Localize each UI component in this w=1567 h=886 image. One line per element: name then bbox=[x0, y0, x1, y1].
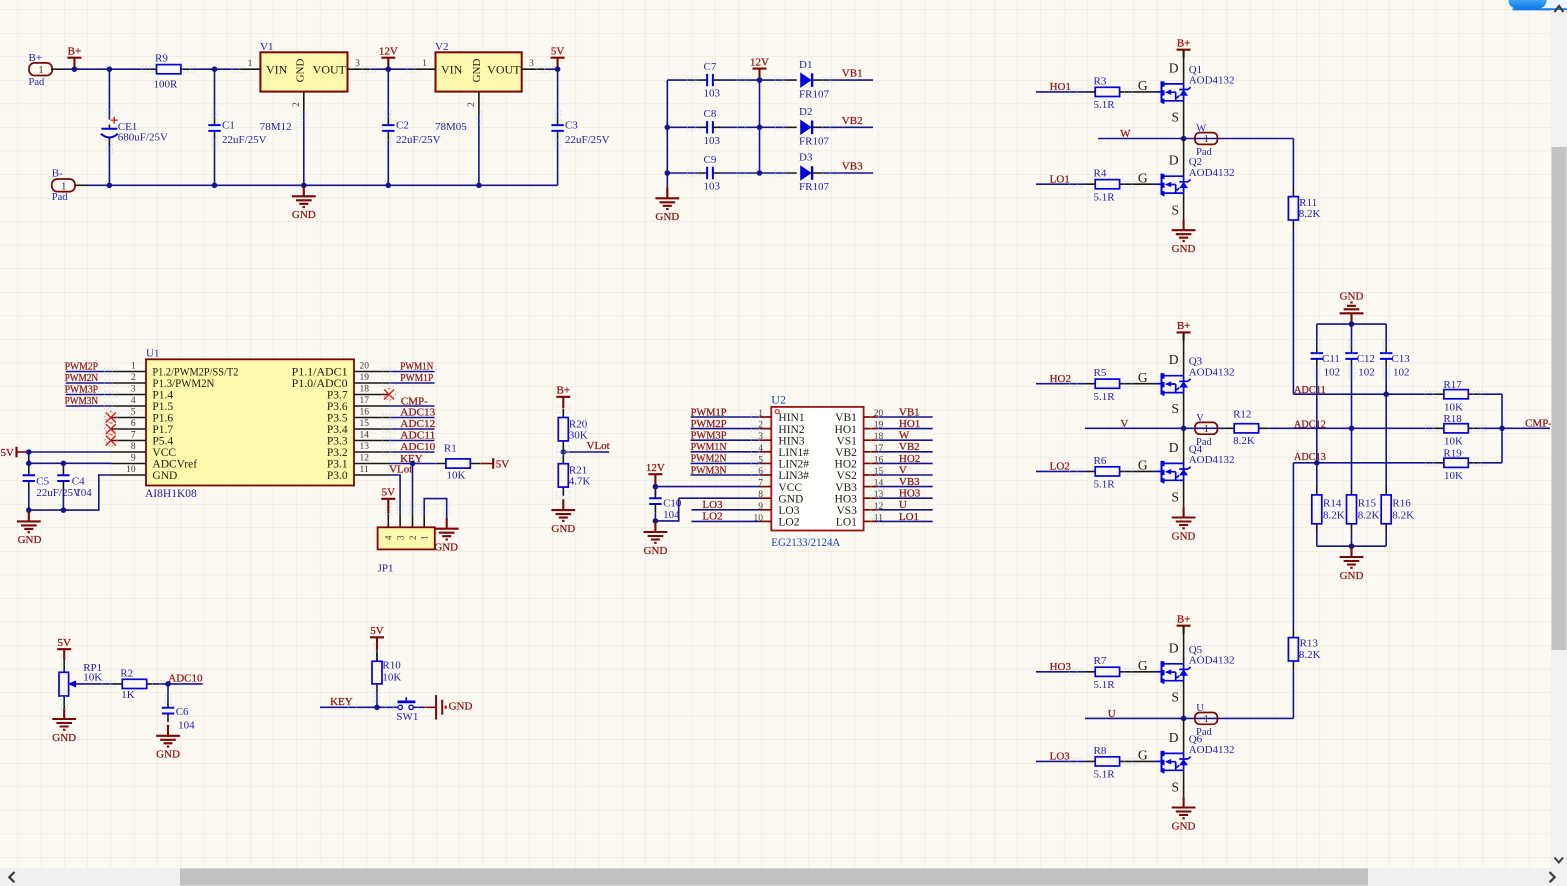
resistor R7 bbox=[1085, 667, 1129, 676]
diode D1 bbox=[787, 73, 825, 87]
svg-text:S: S bbox=[1171, 780, 1179, 795]
pin 1 U2 bbox=[760, 416, 771, 418]
resistor R16 bbox=[1381, 486, 1391, 532]
svg-text:VIN: VIN bbox=[441, 63, 463, 77]
capacitor C7 bbox=[699, 74, 722, 86]
svg-text:VCC: VCC bbox=[152, 447, 176, 459]
wire PWM1N U2 bbox=[691, 451, 760, 453]
pad U bbox=[1195, 713, 1217, 726]
pin 4 U2 bbox=[760, 451, 771, 453]
wire Q5 source bbox=[1183, 681, 1185, 719]
wire Q6 source bbox=[1183, 770, 1185, 796]
junction dot bbox=[555, 66, 561, 72]
resistor R19 bbox=[1434, 458, 1478, 467]
svg-text:12: 12 bbox=[360, 453, 370, 463]
wire HO3 bbox=[1036, 671, 1085, 673]
capacitor C12 bbox=[1345, 345, 1357, 368]
junction dot bbox=[26, 461, 32, 467]
junction dot bbox=[72, 66, 78, 72]
svg-text:12V: 12V bbox=[379, 46, 398, 58]
svg-text:VCC: VCC bbox=[778, 482, 802, 494]
svg-text:4.7K: 4.7K bbox=[569, 476, 591, 488]
pin 4 U1 bbox=[111, 405, 146, 407]
svg-text:ADC11: ADC11 bbox=[400, 429, 435, 441]
svg-text:AOD4132: AOD4132 bbox=[1189, 655, 1235, 667]
wire PWM1N bbox=[389, 371, 435, 373]
wire V1 out bbox=[371, 68, 413, 70]
svg-text:R8: R8 bbox=[1094, 745, 1107, 757]
junction dot bbox=[212, 66, 218, 72]
power port 12V bootstrap bbox=[750, 56, 769, 80]
svg-text:VS2: VS2 bbox=[836, 470, 857, 482]
svg-text:VB1: VB1 bbox=[899, 406, 920, 418]
wire B+ rail left bbox=[64, 68, 147, 70]
pin 3 V1 bbox=[348, 68, 371, 70]
svg-text:D: D bbox=[1169, 730, 1179, 745]
horizontal scrollbar right arrow bbox=[1550, 872, 1555, 882]
svg-text:5: 5 bbox=[131, 407, 136, 417]
pin 7 U1 bbox=[111, 440, 146, 442]
wire SW1 right bbox=[413, 706, 424, 708]
svg-text:G: G bbox=[1138, 171, 1148, 186]
resistor R15 bbox=[1347, 486, 1357, 532]
svg-text:16: 16 bbox=[360, 407, 370, 417]
svg-text:15: 15 bbox=[360, 419, 370, 429]
svg-text:U: U bbox=[899, 499, 907, 511]
wire CMP- column bbox=[1501, 394, 1503, 463]
resistor R13 bbox=[1288, 629, 1298, 670]
wire to C7 bbox=[667, 79, 698, 81]
power port B+ Q5 bbox=[1177, 614, 1191, 634]
wire Q6 drain bbox=[1183, 718, 1185, 753]
pin 9 U2 bbox=[760, 509, 771, 511]
svg-text:HO1: HO1 bbox=[835, 424, 858, 436]
wire R18 out bbox=[1478, 427, 1502, 429]
wire C2 bottom bbox=[387, 139, 389, 185]
svg-text:R6: R6 bbox=[1094, 455, 1107, 467]
wire U U2 bbox=[877, 509, 933, 511]
wire W U2 bbox=[877, 439, 933, 441]
wire PWM3N U2 bbox=[691, 474, 760, 476]
svg-text:ADC11: ADC11 bbox=[1294, 384, 1326, 396]
svg-text:C6: C6 bbox=[176, 706, 189, 718]
svg-text:FR107: FR107 bbox=[799, 88, 829, 100]
junction dot bbox=[1181, 426, 1187, 432]
svg-text:S: S bbox=[1171, 109, 1179, 124]
svg-text:JP1: JP1 bbox=[378, 562, 394, 574]
pin 5 U2 bbox=[760, 462, 771, 464]
svg-text:HIN1: HIN1 bbox=[778, 412, 804, 424]
svg-text:14: 14 bbox=[360, 430, 370, 440]
svg-text:PWM3N: PWM3N bbox=[65, 395, 99, 407]
tab underline bbox=[1513, 8, 1567, 10]
pin 3 JP1 bbox=[399, 513, 401, 527]
pin 18 U2 bbox=[864, 439, 877, 441]
wire HO2 U2 bbox=[877, 462, 933, 464]
wire Q3 source bbox=[1183, 393, 1185, 429]
junction dot bbox=[1383, 391, 1389, 397]
pin 13 U2 bbox=[864, 497, 877, 499]
junction dot bbox=[1349, 543, 1355, 549]
wire ADC13 bbox=[389, 417, 435, 419]
potentiometer RP1 bbox=[59, 672, 76, 696]
svg-text:P3.5: P3.5 bbox=[327, 413, 348, 425]
svg-text:VB2: VB2 bbox=[835, 447, 857, 459]
wire ADC13 to R13 bbox=[1292, 463, 1294, 629]
wire PWM2P bbox=[66, 371, 111, 373]
pin RP1 bottom bbox=[63, 696, 65, 708]
svg-text:5V: 5V bbox=[382, 487, 396, 499]
pin 15 U1 bbox=[354, 428, 389, 430]
wire R5 to gate bbox=[1129, 383, 1154, 385]
power port 12V bbox=[379, 46, 398, 70]
svg-text:CMP-: CMP- bbox=[1525, 418, 1552, 430]
wire KEY bbox=[389, 463, 436, 465]
svg-text:P1.1/ADC1: P1.1/ADC1 bbox=[292, 367, 348, 379]
svg-text:P1.7: P1.7 bbox=[152, 424, 173, 436]
pin 2 V2 bbox=[478, 92, 480, 115]
wire CE1 top bbox=[108, 69, 110, 119]
svg-text:GND: GND bbox=[434, 542, 458, 554]
svg-text:1: 1 bbox=[131, 361, 136, 371]
pin B- pad bbox=[75, 184, 88, 186]
wire VB3 U2 bbox=[877, 486, 933, 488]
svg-text:VB3: VB3 bbox=[899, 476, 920, 488]
svg-text:HIN2: HIN2 bbox=[778, 424, 804, 436]
svg-text:PWM1P: PWM1P bbox=[691, 406, 727, 418]
ground under V1 bbox=[292, 186, 316, 222]
svg-text:5.1R: 5.1R bbox=[1094, 191, 1116, 203]
horizontal scrollbar thumb bbox=[180, 869, 1368, 886]
wire CE1 bottom bbox=[108, 144, 110, 185]
svg-text:5V: 5V bbox=[496, 459, 510, 471]
wire HO3 U2 bbox=[877, 497, 933, 499]
power port 5V bbox=[551, 46, 565, 70]
svg-text:U: U bbox=[1196, 703, 1204, 714]
svg-text:VIN: VIN bbox=[266, 63, 288, 77]
pad B- bbox=[52, 179, 75, 192]
svg-text:P3.0: P3.0 bbox=[327, 470, 348, 482]
svg-text:G: G bbox=[1138, 370, 1148, 385]
pin 2 JP1 bbox=[412, 513, 414, 527]
svg-text:10K: 10K bbox=[382, 671, 401, 683]
junction dot bbox=[386, 183, 392, 189]
svg-text:W: W bbox=[1120, 128, 1131, 140]
svg-text:B+: B+ bbox=[1177, 614, 1191, 626]
svg-text:GND: GND bbox=[551, 523, 575, 535]
pin 19 U2 bbox=[864, 428, 877, 430]
svg-text:22uF/25V: 22uF/25V bbox=[396, 134, 441, 146]
wire LO2 bbox=[1036, 470, 1085, 472]
svg-text:3: 3 bbox=[131, 384, 136, 394]
svg-text:102: 102 bbox=[1393, 367, 1410, 379]
resistor R3 bbox=[1085, 87, 1129, 96]
wire ADC10 bbox=[389, 451, 435, 453]
svg-text:1: 1 bbox=[420, 536, 430, 541]
wire VLot stub bbox=[563, 451, 609, 453]
svg-text:ADCVref: ADCVref bbox=[152, 459, 197, 471]
svg-text:12V: 12V bbox=[750, 56, 769, 68]
wire PWM3P U2 bbox=[691, 439, 760, 441]
svg-text:C1: C1 bbox=[222, 119, 235, 131]
svg-text:B+: B+ bbox=[1177, 320, 1191, 332]
pin 4 JP1 bbox=[387, 513, 389, 527]
power port B+ divider bbox=[556, 385, 570, 409]
vertical scrollbar track bbox=[1551, 10, 1567, 886]
wire CMP- bbox=[1502, 427, 1550, 429]
svg-text:AOD4132: AOD4132 bbox=[1189, 454, 1235, 466]
svg-text:LO2: LO2 bbox=[778, 517, 799, 529]
svg-text:C12: C12 bbox=[1357, 353, 1375, 365]
pin 18 U1 bbox=[354, 394, 389, 396]
svg-text:P1.3/PWM2N: P1.3/PWM2N bbox=[152, 378, 215, 390]
wire V2 out bbox=[545, 68, 558, 70]
junction dot bbox=[107, 66, 113, 72]
svg-text:P1.2/PWM2P/SS/T2: P1.2/PWM2P/SS/T2 bbox=[152, 367, 238, 379]
wire HO2 bbox=[1036, 383, 1085, 385]
wire ADC11 bbox=[389, 440, 435, 442]
resistor R18 bbox=[1434, 424, 1478, 433]
svg-text:103: 103 bbox=[704, 135, 721, 147]
junction dot bbox=[1349, 321, 1355, 327]
svg-text:HO3: HO3 bbox=[899, 488, 921, 500]
wire 12V to VCC bbox=[655, 486, 760, 488]
svg-text:5V: 5V bbox=[1, 447, 15, 459]
svg-text:B+: B+ bbox=[68, 46, 82, 58]
svg-text:78M05: 78M05 bbox=[435, 121, 467, 133]
wire GND pin8 bbox=[679, 497, 760, 499]
capacitor C5 bbox=[23, 467, 35, 490]
wire R6 to gate bbox=[1129, 470, 1154, 472]
ground at C10 bbox=[643, 521, 667, 557]
svg-text:3: 3 bbox=[396, 535, 406, 540]
svg-text:VB3: VB3 bbox=[842, 161, 863, 173]
svg-text:R11: R11 bbox=[1299, 197, 1317, 209]
wire down to ADCVref rail bbox=[28, 452, 30, 463]
wire Q1 source bbox=[1183, 101, 1185, 139]
svg-text:AOD4132: AOD4132 bbox=[1189, 744, 1235, 756]
wire C13 to R16 bbox=[1385, 367, 1387, 486]
wire V U2 bbox=[877, 474, 933, 476]
pin 1 V2 bbox=[412, 68, 435, 70]
svg-text:12V: 12V bbox=[646, 462, 665, 474]
pin 3 U1 bbox=[111, 394, 146, 396]
svg-text:2: 2 bbox=[292, 102, 302, 107]
junction dot bbox=[1499, 426, 1505, 432]
svg-text:SW1: SW1 bbox=[396, 711, 418, 723]
svg-text:LIN2#: LIN2# bbox=[778, 459, 809, 471]
wire B+ to Q3 drain bbox=[1183, 332, 1185, 375]
wire cap top rail bbox=[1317, 323, 1386, 325]
pin 1 U1 bbox=[111, 371, 146, 373]
svg-text:104: 104 bbox=[75, 487, 92, 499]
wire to gnd bbox=[654, 520, 656, 522]
wire JP1 pin1 to gnd bbox=[424, 499, 447, 518]
wire C12 top bbox=[1351, 324, 1353, 345]
wire ADCVref bbox=[29, 462, 111, 464]
wire C5 bottom bbox=[28, 489, 30, 510]
pin 19 U1 bbox=[354, 382, 389, 384]
resistor R14 bbox=[1312, 486, 1322, 532]
pin 3 U2 bbox=[760, 439, 771, 441]
ground under R15 bbox=[1340, 546, 1364, 582]
capacitor C11 bbox=[1311, 345, 1323, 368]
capacitor C10 bbox=[649, 490, 661, 513]
svg-text:GND: GND bbox=[778, 493, 803, 505]
svg-text:5.1R: 5.1R bbox=[1094, 679, 1116, 691]
wire VB2 bbox=[824, 126, 873, 128]
svg-text:5.1R: 5.1R bbox=[1094, 391, 1116, 403]
svg-text:P3.3: P3.3 bbox=[327, 436, 348, 448]
pin 11 U2 bbox=[864, 520, 877, 522]
svg-text:P3.2: P3.2 bbox=[327, 447, 348, 459]
header JP1 bbox=[378, 527, 435, 549]
pad V bbox=[1195, 422, 1217, 435]
wire to C9 bbox=[667, 172, 698, 174]
ground C6 bbox=[156, 725, 180, 761]
power port 12V U2 bbox=[646, 462, 665, 487]
junction dot bbox=[665, 170, 671, 176]
wire LO3 U2 bbox=[691, 509, 760, 511]
svg-text:R20: R20 bbox=[569, 418, 588, 430]
svg-text:FR107: FR107 bbox=[799, 181, 829, 193]
svg-text:5.1R: 5.1R bbox=[1094, 479, 1116, 491]
svg-text:GND: GND bbox=[449, 700, 473, 712]
svg-text:22uF/25V: 22uF/25V bbox=[222, 134, 267, 146]
pin 10 U1 bbox=[111, 474, 146, 476]
wire LO1 bbox=[1036, 183, 1085, 185]
svg-text:8: 8 bbox=[131, 442, 136, 452]
svg-text:D2: D2 bbox=[799, 106, 812, 118]
wire HO1 bbox=[1036, 91, 1085, 93]
wire C10 top bbox=[654, 487, 656, 496]
pin 1 marker U2 bbox=[775, 410, 779, 414]
svg-text:PWM1N: PWM1N bbox=[691, 441, 727, 453]
pin 2 U2 bbox=[760, 428, 771, 430]
pin 14 U1 bbox=[354, 440, 389, 442]
pin 6 U1 bbox=[111, 428, 146, 430]
svg-text:8.2K: 8.2K bbox=[1299, 208, 1321, 220]
ground SW1 bbox=[436, 695, 472, 719]
svg-text:22uF/25V: 22uF/25V bbox=[565, 134, 610, 146]
svg-text:2: 2 bbox=[408, 536, 418, 541]
svg-text:LO1: LO1 bbox=[899, 511, 919, 523]
vertical scrollbar thumb bbox=[1552, 147, 1567, 650]
resistor R20 bbox=[558, 409, 568, 450]
svg-text:C9: C9 bbox=[704, 154, 717, 166]
svg-text:R5: R5 bbox=[1094, 367, 1107, 379]
wire C4 bottom bbox=[62, 489, 64, 510]
svg-text:19: 19 bbox=[360, 373, 370, 383]
ground RP1 bbox=[52, 708, 76, 744]
svg-text:GND: GND bbox=[292, 209, 316, 221]
svg-text:G: G bbox=[1138, 458, 1148, 473]
svg-text:5V: 5V bbox=[551, 46, 565, 58]
pin 17 U1 bbox=[354, 405, 389, 407]
junction dot bbox=[561, 449, 567, 455]
svg-text:1: 1 bbox=[61, 181, 66, 192]
svg-text:EG2133/2124A: EG2133/2124A bbox=[771, 535, 840, 549]
wire VB3 bbox=[824, 172, 873, 174]
svg-text:LIN1#: LIN1# bbox=[778, 447, 809, 459]
transistor Q3 bbox=[1155, 373, 1191, 396]
svg-text:GND: GND bbox=[655, 211, 679, 223]
pin 16 U2 bbox=[864, 462, 877, 464]
svg-text:HO1: HO1 bbox=[899, 418, 920, 430]
svg-text:GND: GND bbox=[52, 732, 76, 744]
pin 8 U2 bbox=[760, 497, 771, 499]
svg-text:680uF/25V: 680uF/25V bbox=[118, 131, 168, 143]
capacitor C6 bbox=[162, 699, 174, 722]
junction dot bbox=[757, 125, 763, 131]
svg-text:P1.6: P1.6 bbox=[152, 413, 173, 425]
resistor R10 bbox=[372, 653, 382, 693]
pin 9 U1 bbox=[111, 463, 146, 465]
svg-text:VS1: VS1 bbox=[836, 435, 857, 447]
svg-text:GND: GND bbox=[295, 59, 307, 83]
svg-text:VB1: VB1 bbox=[835, 412, 857, 424]
wire R3 to gate bbox=[1129, 91, 1154, 93]
junction dot bbox=[1349, 426, 1355, 432]
svg-text:R17: R17 bbox=[1443, 379, 1462, 391]
wire R13 to U bbox=[1292, 670, 1294, 719]
wire RP1 to R2 bbox=[76, 683, 113, 685]
wire to gnd port bbox=[424, 706, 435, 708]
svg-text:P3.1: P3.1 bbox=[327, 459, 348, 471]
junction dot bbox=[410, 461, 416, 467]
svg-text:5.1R: 5.1R bbox=[1094, 769, 1116, 781]
pin 2 V1 bbox=[303, 92, 305, 115]
svg-text:S: S bbox=[1171, 401, 1179, 416]
resistor R1 bbox=[436, 459, 480, 468]
svg-text:G: G bbox=[1138, 658, 1148, 673]
wire ADC12 bbox=[389, 428, 435, 430]
resistor R12 bbox=[1224, 424, 1268, 433]
svg-text:W: W bbox=[1196, 123, 1206, 134]
junction dot bbox=[107, 183, 113, 189]
svg-text:D: D bbox=[1169, 60, 1179, 75]
svg-text:8.2K: 8.2K bbox=[1323, 509, 1345, 521]
svg-text:S: S bbox=[1171, 490, 1179, 505]
svg-text:17: 17 bbox=[360, 396, 370, 406]
svg-text:AI8H1K08: AI8H1K08 bbox=[145, 488, 197, 500]
svg-text:V: V bbox=[1120, 418, 1128, 430]
wire VB2 U2 bbox=[877, 451, 933, 453]
wire VB1 U2 bbox=[877, 416, 933, 418]
wire R14 bottom bbox=[1316, 532, 1318, 546]
wire KEY to JP1 bbox=[412, 464, 414, 514]
power port B+ bbox=[67, 46, 81, 70]
svg-text:GND: GND bbox=[1172, 530, 1196, 542]
svg-text:ADC13: ADC13 bbox=[1294, 451, 1326, 463]
svg-text:W: W bbox=[899, 430, 910, 442]
wire C5 top bbox=[28, 463, 30, 467]
pin 1 V1 bbox=[237, 68, 260, 70]
ground at C5 bbox=[17, 511, 42, 547]
svg-text:V2: V2 bbox=[435, 41, 448, 53]
wire PWM3N bbox=[66, 405, 111, 407]
wire to C8 bbox=[667, 126, 698, 128]
resistor R4 bbox=[1085, 180, 1129, 189]
svg-text:FR107: FR107 bbox=[799, 136, 829, 148]
junction dot bbox=[26, 507, 32, 513]
svg-text:104: 104 bbox=[178, 720, 195, 732]
svg-text:11: 11 bbox=[360, 465, 369, 475]
svg-text:R10: R10 bbox=[382, 660, 401, 672]
junction dot bbox=[301, 183, 307, 189]
svg-text:R19: R19 bbox=[1443, 448, 1462, 460]
svg-text:S: S bbox=[1171, 689, 1179, 704]
